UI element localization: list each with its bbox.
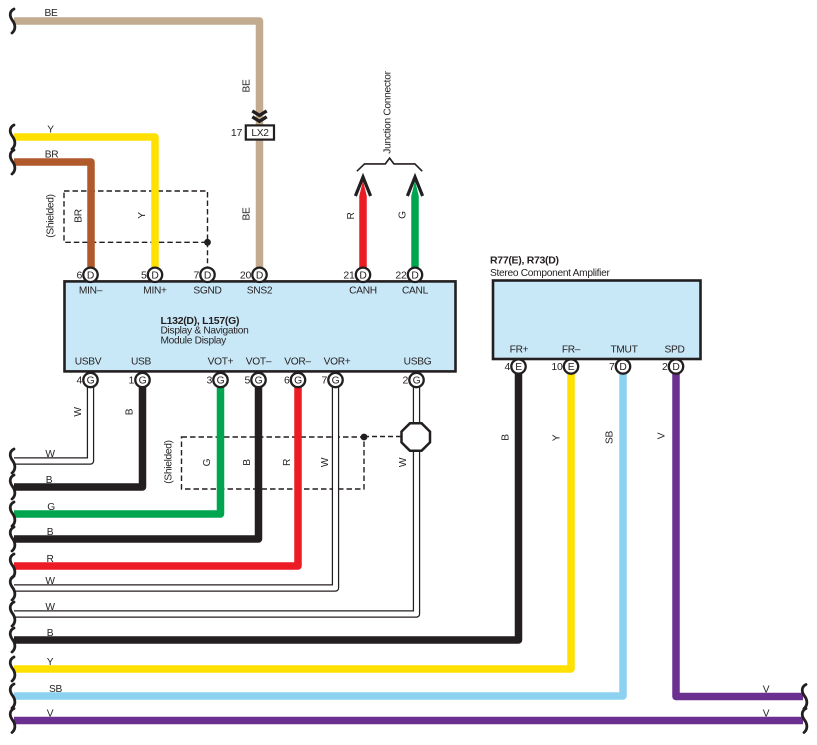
svg-text:2: 2 — [402, 375, 408, 387]
svg-text:FR–: FR– — [562, 345, 581, 356]
svg-text:R: R — [346, 212, 357, 219]
svg-text:B: B — [242, 459, 253, 466]
svg-text:Stereo Component Amplifier: Stereo Component Amplifier — [490, 268, 611, 279]
pin 4 E FR+ — [504, 359, 525, 373]
break squiggle W1 — [10, 449, 15, 473]
svg-text:5: 5 — [141, 270, 147, 282]
break squiggle V bottom right — [802, 709, 807, 733]
svg-text:B: B — [125, 408, 136, 415]
svg-text:R: R — [282, 459, 293, 466]
svg-text:E: E — [568, 362, 575, 373]
svg-text:7: 7 — [193, 270, 199, 282]
svg-text:D: D — [411, 271, 418, 282]
svg-text:Y: Y — [47, 657, 54, 668]
svg-text:R77(E), R73(D): R77(E), R73(D) — [490, 255, 559, 267]
wire SB from amplifier TMUT pin 7 — [14, 359, 623, 696]
break squiggle W2 — [10, 576, 15, 600]
pin 1 G USB — [128, 373, 149, 387]
svg-text:7: 7 — [321, 375, 327, 387]
pin 3 G VOT+ — [206, 373, 227, 387]
svg-text:B: B — [501, 434, 512, 441]
svg-text:G: G — [332, 376, 340, 387]
wire W from USBG pin 2 — [14, 372, 417, 614]
svg-text:MIN–: MIN– — [79, 286, 103, 297]
wire Y from amplifier FR- pin 10 — [14, 359, 571, 669]
amplifier box R77(E) R73(D) Stereo Component Amplifier — [490, 255, 701, 360]
pin 6 G VOR- — [284, 373, 305, 387]
break squiggle V left — [10, 709, 15, 733]
noise filter octagon — [402, 423, 431, 450]
pin 10 E FR- — [551, 359, 578, 373]
dashed link to noise filter — [364, 436, 403, 438]
svg-text:BE: BE — [45, 8, 58, 19]
pin 7 D TMUT — [609, 359, 630, 373]
shield junction dot — [204, 239, 211, 246]
svg-text:Module Display: Module Display — [161, 335, 228, 346]
break squiggle V right — [802, 685, 807, 709]
svg-text:G: G — [139, 376, 147, 387]
svg-text:USBV: USBV — [75, 357, 102, 368]
shield box 1 (Shielded) dashed — [64, 191, 208, 242]
svg-text:MIN+: MIN+ — [143, 286, 167, 297]
svg-text:B: B — [47, 527, 54, 538]
wire BE (beige) horizontal+vertical to LX2/SNS2 — [14, 21, 260, 275]
svg-text:W: W — [45, 602, 55, 613]
svg-text:G: G — [255, 376, 263, 387]
wire B from amplifier FR+ pin 4 — [14, 359, 519, 640]
svg-text:5: 5 — [244, 375, 250, 387]
svg-text:R: R — [46, 554, 53, 565]
pin 4 G USBV — [76, 373, 97, 387]
svg-text:(Shielded): (Shielded) — [46, 194, 57, 237]
svg-text:10: 10 — [551, 361, 563, 373]
svg-text:7: 7 — [609, 361, 615, 373]
svg-text:V: V — [47, 709, 54, 720]
svg-text:BE: BE — [242, 207, 253, 220]
shield box 2 (Shielded) dashed — [182, 437, 365, 489]
pin 21 D CANH — [343, 268, 370, 282]
svg-text:1: 1 — [128, 375, 134, 387]
svg-text:VOT–: VOT– — [246, 357, 272, 368]
wire R from VOR- pin 6 — [14, 372, 298, 566]
svg-text:W: W — [73, 407, 84, 417]
svg-text:D: D — [87, 271, 94, 282]
break squiggle B3 — [10, 628, 15, 652]
svg-text:VOR+: VOR+ — [324, 357, 351, 368]
svg-text:W: W — [398, 457, 409, 467]
svg-text:G: G — [47, 502, 55, 513]
junction connector brace — [357, 158, 422, 171]
svg-text:B: B — [46, 475, 53, 486]
svg-text:D: D — [619, 362, 626, 373]
svg-text:6: 6 — [76, 270, 82, 282]
svg-text:22: 22 — [395, 270, 407, 282]
pin 2 G USBG — [402, 373, 423, 387]
connector LX2 pin 17 — [231, 125, 274, 139]
pin 7 G VOR+ — [321, 373, 342, 387]
svg-text:SNS2: SNS2 — [247, 286, 273, 297]
svg-text:W: W — [45, 449, 55, 460]
svg-text:G: G — [87, 376, 95, 387]
pin 5 G VOT- — [244, 373, 265, 387]
pin 20 D SNS2 — [240, 268, 267, 282]
svg-text:21: 21 — [343, 270, 355, 282]
shield junction dot 2 — [361, 434, 368, 441]
svg-text:G: G — [217, 376, 225, 387]
svg-text:G: G — [398, 211, 409, 219]
svg-text:20: 20 — [240, 270, 252, 282]
svg-text:V: V — [763, 685, 770, 696]
double chevron into LX2 — [252, 111, 266, 116]
svg-text:Y: Y — [47, 125, 54, 136]
svg-text:BR: BR — [74, 209, 85, 223]
wire G from VOT+ pin 3 — [14, 372, 221, 514]
break squiggle BR — [10, 150, 15, 174]
svg-text:2: 2 — [662, 361, 668, 373]
module box L132(D) L157(G) Display & Navigation Module Display — [65, 281, 456, 371]
svg-text:E: E — [515, 362, 522, 373]
wire V bottom full width — [14, 717, 803, 725]
svg-text:D: D — [359, 271, 366, 282]
svg-text:6: 6 — [284, 375, 290, 387]
shield drain dashed line to SGND — [207, 242, 209, 268]
svg-text:D: D — [204, 271, 211, 282]
pin 6 D MIN- — [76, 268, 97, 282]
break squiggle BE — [10, 9, 15, 33]
svg-text:SB: SB — [605, 431, 616, 444]
svg-text:VOR–: VOR– — [284, 357, 311, 368]
svg-text:17: 17 — [231, 127, 243, 139]
svg-text:D: D — [672, 362, 679, 373]
svg-text:USBG: USBG — [404, 357, 432, 368]
break squiggle R — [10, 554, 15, 578]
svg-text:D: D — [151, 271, 158, 282]
wire R (red) CANH with arrow to junction connector — [359, 181, 367, 270]
svg-text:CANH: CANH — [349, 286, 377, 297]
break squiggle Y2 — [10, 657, 15, 681]
svg-text:Junction Connector: Junction Connector — [383, 70, 394, 153]
pin 5 D MIN+ — [141, 268, 162, 282]
svg-text:LX2: LX2 — [251, 128, 269, 139]
svg-text:4: 4 — [76, 375, 82, 387]
wire G (green) CANL with arrow to junction connector — [411, 181, 419, 270]
wire BR (brown) to MIN- — [14, 162, 91, 275]
wire B from VOT- pin 5 — [14, 372, 259, 539]
svg-text:W: W — [320, 457, 331, 467]
svg-text:TMUT: TMUT — [610, 345, 637, 356]
break squiggle B1 — [10, 475, 15, 499]
svg-text:Y: Y — [552, 434, 563, 441]
svg-text:G: G — [202, 458, 213, 466]
svg-text:VOT+: VOT+ — [208, 357, 234, 368]
svg-text:G: G — [413, 376, 421, 387]
svg-text:V: V — [763, 709, 770, 720]
svg-text:(Shielded): (Shielded) — [164, 440, 175, 483]
svg-text:V: V — [657, 432, 668, 439]
wire W from USBV pin 4 — [14, 372, 91, 461]
break squiggle Y — [10, 125, 15, 149]
svg-text:4: 4 — [504, 361, 510, 373]
svg-text:Y: Y — [137, 212, 148, 219]
svg-text:SPD: SPD — [664, 345, 684, 356]
svg-text:SB: SB — [49, 684, 62, 695]
wire Y (yellow) to MIN+ — [14, 137, 155, 275]
wire W from VOR+ pin 7 — [14, 372, 336, 588]
pin 22 D CANL — [395, 268, 422, 282]
pin 2 D SPD — [662, 359, 683, 373]
svg-text:USB: USB — [131, 357, 152, 368]
pin 7 D SGND — [193, 268, 214, 282]
svg-text:W: W — [45, 576, 55, 587]
svg-text:B: B — [47, 628, 54, 639]
break squiggle B2 — [10, 527, 15, 551]
svg-text:3: 3 — [206, 375, 212, 387]
break squiggle SB — [10, 684, 15, 708]
break squiggle G — [10, 502, 15, 526]
svg-text:D: D — [256, 271, 263, 282]
svg-text:BR: BR — [45, 150, 59, 161]
break squiggle W3 — [10, 602, 15, 626]
svg-text:G: G — [294, 376, 302, 387]
svg-text:FR+: FR+ — [510, 345, 529, 356]
wire V from amplifier SPD pin 2 to right — [676, 359, 803, 697]
wire B from USB pin 1 — [14, 372, 143, 487]
svg-text:SGND: SGND — [193, 286, 221, 297]
svg-text:CANL: CANL — [402, 286, 429, 297]
svg-text:BE: BE — [242, 79, 253, 92]
